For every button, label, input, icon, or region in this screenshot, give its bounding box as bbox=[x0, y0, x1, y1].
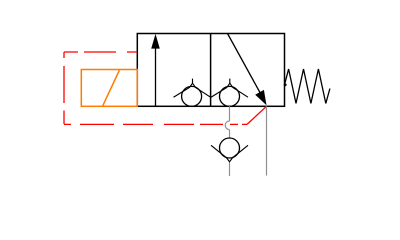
flow arrow (right position, diagonal) bbox=[228, 34, 267, 106]
connection stub below check valve bbox=[229, 163, 231, 177]
return spring bbox=[284, 83, 287, 86]
connection line (right port down) bbox=[266, 106, 268, 175]
solenoid Y1 bbox=[81, 70, 137, 107]
pilot line (red dashed, left run) bbox=[63, 52, 65, 124]
pilot line (red dashed, bottom run) bbox=[64, 123, 247, 125]
check valve (left position) bbox=[174, 79, 211, 107]
check valve (right position) bbox=[211, 79, 248, 107]
flow arrow (left position, up) bbox=[151, 34, 160, 106]
check valve C1 (lower) bbox=[211, 138, 248, 162]
valve position divider bbox=[210, 34, 212, 107]
pilot line (red dashed, top run) bbox=[64, 51, 138, 53]
pilot line diagonal to valve corner bbox=[247, 106, 267, 124]
connection line (center port down with hop) bbox=[225, 106, 229, 138]
valve body V1 (2-position directional valve) bbox=[137, 34, 284, 107]
